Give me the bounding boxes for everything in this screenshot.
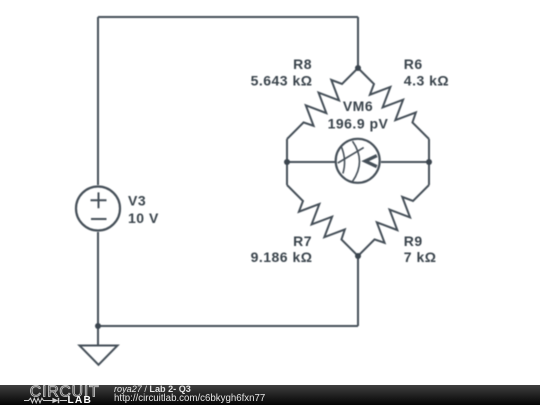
CircuitLab logo text LAB [68,396,93,405]
node left [284,159,290,165]
svg-text:R9: R9 [404,233,423,249]
VM6 gauge outer arc [353,141,360,181]
footer meta line 2 [114,394,265,404]
node top [355,65,361,71]
wire left node to voltmeter [287,161,335,163]
V3 minus sign [91,218,107,220]
VM6 V glyph (rotated) [365,156,377,167]
footer meta line 1 [114,385,191,394]
VM6 needle [338,148,364,163]
resistor R8 [280,61,365,146]
svg-text:V3: V3 [128,193,146,209]
resistor R6 [351,61,436,146]
svg-text:10 V: 10 V [128,210,159,226]
VM6 gauge inner arc [342,147,345,173]
wire bridge left vertical [286,139,288,185]
node right [426,159,432,165]
ground triangle [80,346,118,365]
node bottom [355,253,361,259]
resistor R9 [351,178,436,263]
svg-text:R6: R6 [404,56,423,72]
svg-text:R8: R8 [293,56,312,72]
CircuitLab logo text CIRCUIT [0,384,110,405]
svg-text:9.186 kΩ: 9.186 kΩ [251,249,313,265]
svg-text:VM6: VM6 [343,98,373,114]
footer bar [0,385,540,405]
wire top horizontal [98,16,358,18]
resistor R7 [280,178,365,263]
svg-text:4.3 kΩ: 4.3 kΩ [404,73,449,89]
ground stem [97,326,99,346]
wire bridge right vertical [428,139,430,185]
V3 plus sign [91,192,107,208]
svg-text:196.9 pV: 196.9 pV [328,115,389,131]
node ground junction [95,323,101,329]
svg-text:7 kΩ: 7 kΩ [404,249,437,265]
voltage source V3 circle [76,187,120,231]
wire voltmeter to right node [381,161,429,163]
svg-text:5.643 kΩ: 5.643 kΩ [251,73,313,89]
wire left vertical to V3 [97,17,99,185]
wire V3 bottom to ground junction [97,232,99,326]
wire right vertical top to bridge [357,17,359,68]
voltmeter VM6 circle [336,139,380,183]
wire bottom horizontal [98,325,358,327]
wire bridge bottom node down [357,256,359,326]
svg-text:R7: R7 [293,233,312,249]
CircuitLab logo symbol (resistor + diode) [24,397,68,405]
